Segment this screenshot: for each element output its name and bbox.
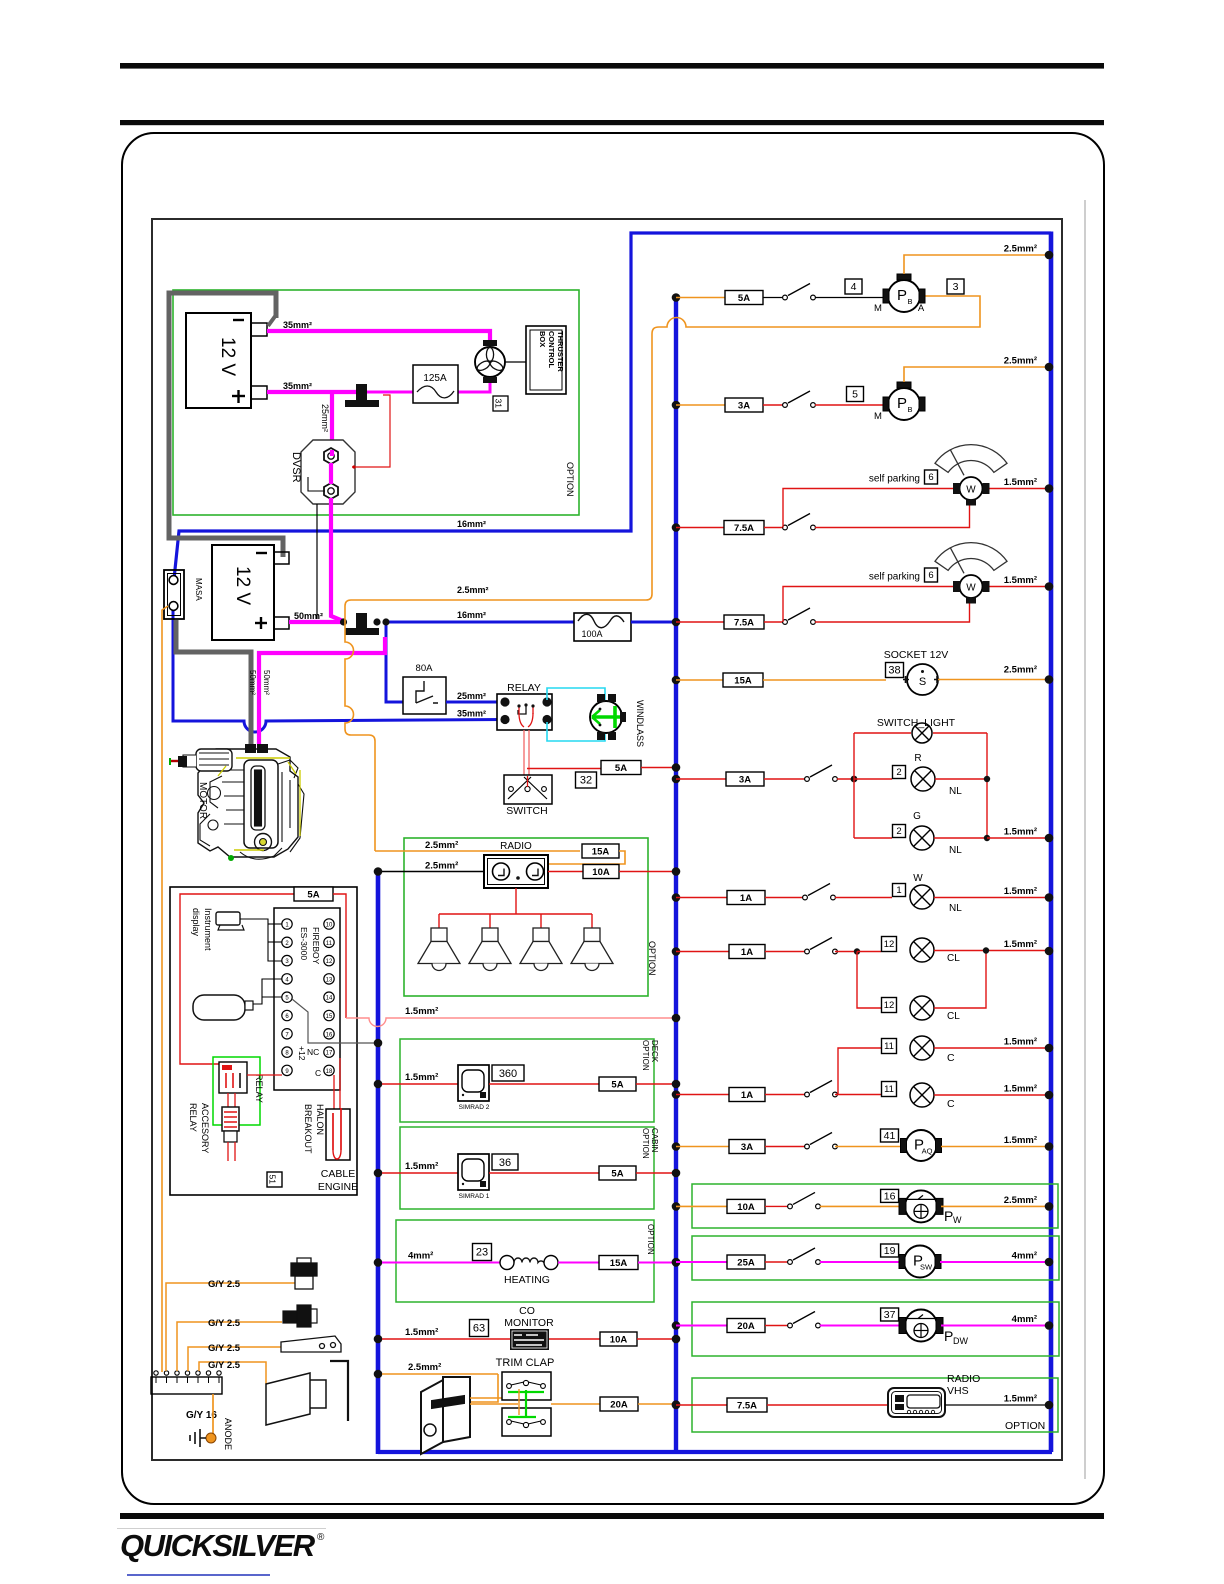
svg-text:OPTION: OPTION [641, 1040, 650, 1071]
svg-text:S: S [919, 676, 926, 688]
svg-text:2.5mm²: 2.5mm² [1004, 1195, 1037, 1206]
svg-text:W: W [953, 1215, 962, 1225]
svg-text:1.5mm²: 1.5mm² [405, 1072, 438, 1083]
svg-text:WINDLASS: WINDLASS [635, 700, 645, 747]
svg-text:OPTION: OPTION [647, 941, 657, 976]
svg-text:1.5mm²: 1.5mm² [1004, 939, 1037, 950]
svg-text:display: display [191, 908, 201, 937]
svg-text:A: A [918, 303, 925, 314]
svg-text:4: 4 [851, 281, 857, 293]
svg-text:W: W [966, 485, 976, 496]
svg-text:QUICKSILVER: QUICKSILVER [120, 1528, 316, 1563]
svg-text:16: 16 [884, 1190, 896, 1202]
svg-text:19: 19 [884, 1245, 896, 1257]
svg-text:RELAY: RELAY [254, 1074, 264, 1103]
svg-text:THRUSTER: THRUSTER [556, 331, 565, 372]
svg-text:11: 11 [884, 1084, 894, 1095]
svg-text:1A: 1A [740, 893, 752, 904]
svg-text:16mm²: 16mm² [457, 610, 486, 620]
svg-text:1.5mm²: 1.5mm² [1004, 575, 1037, 586]
svg-text:6: 6 [928, 472, 933, 483]
svg-text:10A: 10A [592, 867, 610, 878]
svg-text:2.5mm²: 2.5mm² [425, 861, 458, 872]
svg-text:SWITCH_LIGHT: SWITCH_LIGHT [877, 717, 956, 729]
svg-text:C: C [947, 1098, 955, 1110]
svg-text:HALON: HALON [315, 1104, 325, 1135]
svg-text:OPTION: OPTION [641, 1128, 650, 1159]
svg-text:63: 63 [473, 1323, 485, 1335]
svg-text:3A: 3A [741, 1142, 753, 1153]
svg-text:12: 12 [884, 939, 895, 950]
svg-text:G/Y 2.5: G/Y 2.5 [208, 1343, 241, 1354]
svg-text:17: 17 [326, 1051, 333, 1057]
svg-text:NL: NL [949, 903, 962, 914]
svg-text:1A: 1A [741, 1090, 753, 1101]
svg-text:1.5mm²: 1.5mm² [405, 1161, 438, 1172]
svg-text:2.5mm²: 2.5mm² [1004, 356, 1037, 367]
svg-text:ENGINE: ENGINE [318, 1181, 358, 1193]
svg-text:SOCKET 12V: SOCKET 12V [884, 649, 949, 661]
svg-text:P: P [897, 395, 907, 412]
svg-text:125A: 125A [423, 373, 447, 384]
svg-text:4mm²: 4mm² [1012, 1251, 1037, 1262]
svg-text:2.5mm²: 2.5mm² [408, 1362, 441, 1373]
svg-text:W: W [966, 583, 976, 594]
svg-text:CL: CL [947, 1011, 960, 1022]
svg-text:®: ® [317, 1532, 325, 1543]
svg-text:4mm²: 4mm² [408, 1251, 433, 1262]
svg-text:12 V: 12 V [232, 566, 253, 605]
svg-text:SWITCH: SWITCH [506, 805, 547, 817]
svg-text:11: 11 [884, 1041, 894, 1052]
svg-text:2.5mm²: 2.5mm² [457, 585, 489, 595]
svg-text:20A: 20A [737, 1321, 755, 1332]
svg-text:5A: 5A [611, 1168, 623, 1179]
svg-text:14: 14 [326, 996, 333, 1002]
svg-text:RADIO: RADIO [947, 1373, 980, 1385]
svg-text:3A: 3A [739, 774, 751, 785]
svg-text:1.5mm²: 1.5mm² [1004, 827, 1037, 838]
svg-text:1.5mm²: 1.5mm² [1004, 1394, 1037, 1405]
svg-text:51: 51 [268, 1175, 278, 1185]
svg-text:100A: 100A [581, 629, 602, 639]
svg-text:15A: 15A [734, 675, 752, 686]
svg-text:OPTION: OPTION [1005, 1420, 1045, 1432]
svg-text:7.5A: 7.5A [734, 523, 754, 534]
svg-text:2: 2 [896, 826, 901, 837]
svg-text:1.5mm²: 1.5mm² [405, 1327, 438, 1338]
svg-text:M: M [874, 411, 882, 422]
svg-text:15: 15 [326, 1014, 333, 1020]
svg-text:C: C [947, 1052, 955, 1064]
svg-text:G/Y 2.5: G/Y 2.5 [208, 1279, 241, 1290]
svg-text:TRIM CLAP: TRIM CLAP [496, 1357, 555, 1369]
svg-text:25mm²: 25mm² [320, 404, 330, 432]
svg-text:DVSR: DVSR [290, 452, 302, 483]
svg-text:DW: DW [953, 1336, 968, 1346]
svg-text:3: 3 [953, 281, 959, 293]
svg-text:15A: 15A [592, 846, 610, 857]
svg-text:RADIO: RADIO [500, 841, 532, 852]
svg-text:18: 18 [326, 1069, 333, 1075]
svg-text:P: P [897, 287, 907, 304]
svg-text:BREAKOUT: BREAKOUT [303, 1104, 313, 1154]
svg-text:CABIN: CABIN [650, 1128, 659, 1153]
svg-text:MONITOR: MONITOR [504, 1317, 554, 1329]
svg-text:32: 32 [580, 775, 592, 787]
svg-text:25A: 25A [737, 1257, 755, 1268]
svg-text:2.5mm²: 2.5mm² [425, 840, 458, 851]
svg-text:C: C [315, 1068, 321, 1078]
svg-text:P: P [944, 1208, 953, 1224]
svg-text:NC: NC [307, 1047, 319, 1057]
svg-text:37: 37 [884, 1309, 896, 1321]
svg-text:4mm²: 4mm² [1012, 1314, 1037, 1325]
svg-text:38: 38 [888, 665, 900, 677]
svg-text:35mm²: 35mm² [283, 320, 312, 330]
svg-text:G/Y 2.5: G/Y 2.5 [208, 1318, 241, 1329]
svg-text:VHS: VHS [947, 1385, 969, 1397]
svg-text:7.5A: 7.5A [734, 617, 754, 628]
svg-text:MOTOR: MOTOR [197, 782, 208, 819]
svg-text:2.5mm²: 2.5mm² [1004, 665, 1037, 676]
svg-text:10A: 10A [610, 1334, 628, 1345]
svg-text:CABLE: CABLE [321, 1168, 355, 1180]
svg-text:1.5mm²: 1.5mm² [1004, 477, 1037, 488]
svg-text:80A: 80A [416, 663, 434, 674]
svg-text:16mm²: 16mm² [457, 519, 486, 529]
svg-text:1A: 1A [741, 947, 753, 958]
svg-text:6: 6 [928, 570, 933, 581]
svg-text:5A: 5A [307, 889, 319, 900]
svg-text:7.5A: 7.5A [737, 1400, 757, 1411]
svg-text:5: 5 [852, 389, 858, 401]
svg-text:+12: +12 [297, 1046, 307, 1061]
svg-text:DECK: DECK [650, 1040, 659, 1063]
svg-text:1: 1 [896, 885, 901, 896]
svg-text:G: G [913, 811, 921, 822]
svg-text:36: 36 [499, 1157, 511, 1169]
svg-text:1.5mm²: 1.5mm² [1004, 1084, 1037, 1095]
svg-text:RELAY: RELAY [507, 682, 541, 694]
svg-text:35mm²: 35mm² [457, 709, 486, 719]
svg-text:20A: 20A [610, 1399, 628, 1410]
svg-text:50mm²: 50mm² [248, 670, 257, 695]
svg-text:OPTION: OPTION [565, 462, 575, 497]
svg-text:15A: 15A [610, 1258, 628, 1269]
svg-text:35mm²: 35mm² [283, 381, 312, 391]
svg-text:B: B [907, 297, 912, 306]
svg-text:self parking: self parking [869, 572, 920, 583]
svg-text:25mm²: 25mm² [457, 691, 486, 701]
svg-text:NL: NL [949, 786, 962, 797]
svg-text:41: 41 [884, 1130, 896, 1142]
svg-text:12 V: 12 V [217, 337, 238, 376]
svg-text:10: 10 [326, 923, 333, 929]
svg-text:CL: CL [947, 953, 960, 964]
svg-text:SIMRAD 2: SIMRAD 2 [459, 1104, 490, 1111]
svg-text:5A: 5A [615, 763, 627, 774]
svg-text:CONTROL: CONTROL [547, 331, 556, 368]
svg-text:FIREBOY: FIREBOY [311, 927, 321, 965]
svg-text:P: P [944, 1328, 953, 1344]
svg-text:NL: NL [949, 845, 962, 856]
svg-text:13: 13 [326, 977, 333, 983]
svg-text:31: 31 [494, 399, 504, 409]
svg-text:3A: 3A [738, 400, 750, 411]
svg-text:Instrument: Instrument [203, 908, 213, 951]
svg-text:ACCESORY: ACCESORY [200, 1103, 210, 1153]
svg-text:MASA: MASA [194, 578, 203, 601]
svg-text:5A: 5A [738, 293, 750, 304]
svg-text:1.5mm²: 1.5mm² [1004, 1135, 1037, 1146]
svg-text:ANODE: ANODE [223, 1418, 233, 1450]
svg-text:23: 23 [476, 1247, 488, 1259]
svg-text:M: M [874, 303, 882, 314]
svg-text:OPTION: OPTION [646, 1224, 655, 1255]
svg-text:12: 12 [326, 959, 333, 965]
svg-text:BOX: BOX [538, 331, 547, 347]
svg-text:50mm²: 50mm² [262, 670, 271, 695]
svg-text:1.5mm²: 1.5mm² [1004, 886, 1037, 897]
svg-text:5A: 5A [611, 1079, 623, 1090]
svg-text:ES-3000: ES-3000 [299, 927, 309, 960]
svg-text:B: B [907, 405, 912, 414]
svg-text:12: 12 [884, 1000, 895, 1011]
svg-text:10A: 10A [737, 1202, 755, 1213]
svg-text:G/Y 2.5: G/Y 2.5 [208, 1360, 241, 1371]
svg-text:AQ: AQ [922, 1147, 933, 1156]
svg-text:2.5mm²: 2.5mm² [1004, 244, 1037, 255]
svg-text:self parking: self parking [869, 474, 920, 485]
svg-text:360: 360 [499, 1068, 517, 1080]
svg-text:RELAY: RELAY [188, 1103, 198, 1132]
svg-text:SIMRAD 1: SIMRAD 1 [459, 1193, 490, 1200]
svg-text:16: 16 [326, 1032, 333, 1038]
svg-text:11: 11 [326, 941, 333, 947]
svg-text:1.5mm²: 1.5mm² [405, 1006, 438, 1017]
svg-text:SW: SW [920, 1263, 933, 1272]
svg-text:CO: CO [519, 1305, 535, 1317]
svg-text:50mm²: 50mm² [294, 611, 323, 621]
svg-text:2: 2 [896, 767, 901, 778]
svg-text:W: W [913, 873, 923, 884]
svg-text:1.5mm²: 1.5mm² [1004, 1037, 1037, 1048]
svg-text:HEATING: HEATING [504, 1274, 550, 1286]
svg-text:R: R [914, 753, 921, 764]
